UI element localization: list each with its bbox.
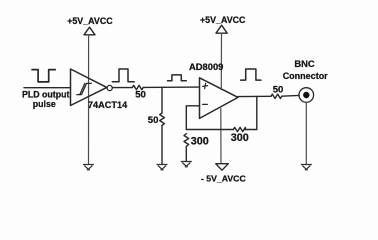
svg-text:pulse: pulse — [33, 99, 56, 109]
svg-text:AD8009: AD8009 — [189, 61, 223, 72]
svg-text:+5V_AVCC: +5V_AVCC — [200, 15, 246, 25]
svg-text:50: 50 — [273, 84, 284, 95]
svg-text:- 5V_AVCC: - 5V_AVCC — [201, 173, 246, 183]
svg-text:50: 50 — [148, 115, 159, 126]
svg-text:300: 300 — [231, 132, 249, 144]
svg-text:Connector: Connector — [283, 71, 328, 81]
svg-text:+5V_AVCC: +5V_AVCC — [67, 16, 113, 26]
svg-text:50: 50 — [135, 89, 146, 100]
svg-text:300: 300 — [191, 136, 209, 148]
svg-text:74ACT14: 74ACT14 — [88, 100, 128, 110]
svg-text:BNC: BNC — [294, 58, 315, 69]
